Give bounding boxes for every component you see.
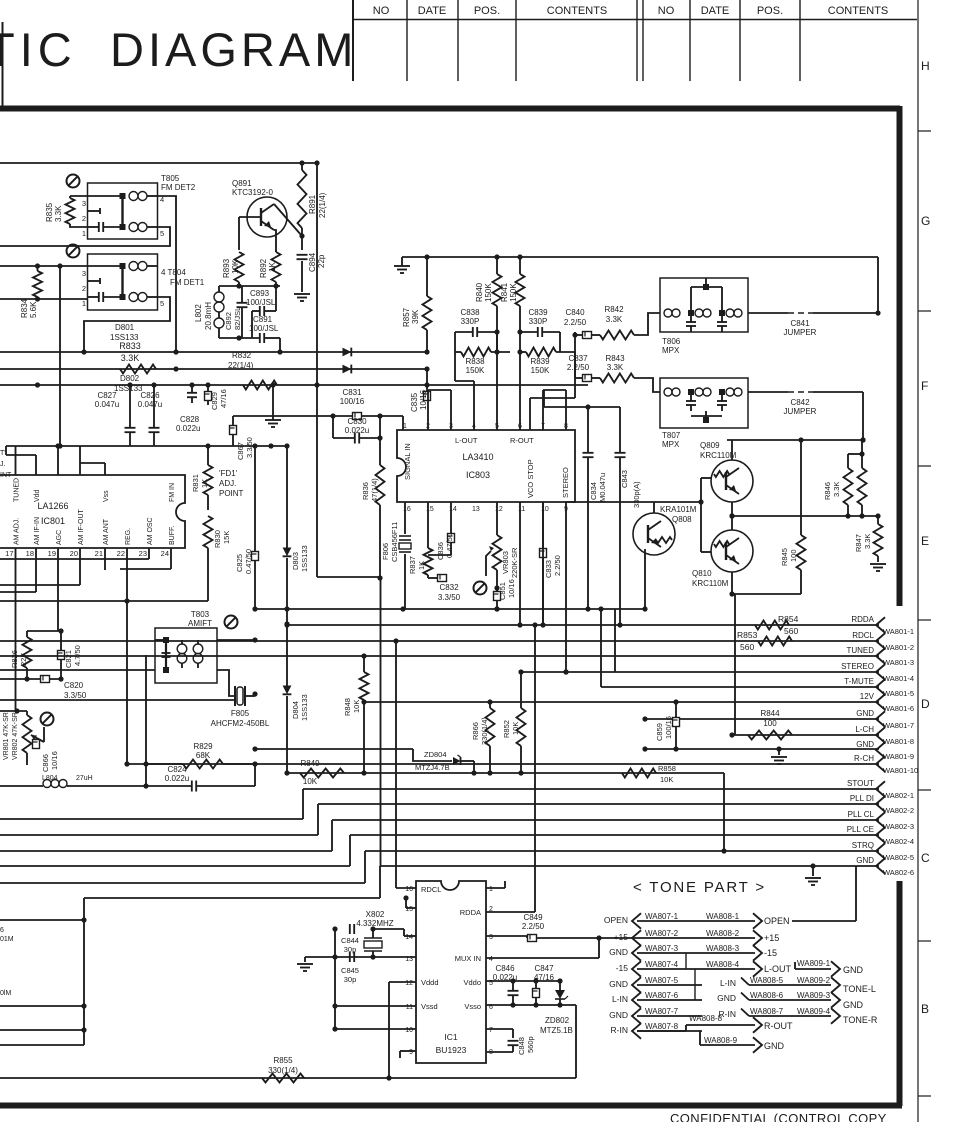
capacitor C847 — [533, 964, 555, 1005]
svg-text:C837: C837 — [568, 354, 588, 363]
svg-text:21: 21 — [95, 549, 103, 558]
transistor label cut 1 — [0, 927, 14, 943]
resistor R858 — [622, 764, 676, 784]
svg-text:3.3/50: 3.3/50 — [64, 691, 87, 700]
svg-text:G: G — [921, 214, 930, 228]
svg-text:E: E — [921, 534, 929, 548]
svg-text:100/JSL: 100/JSL — [249, 324, 279, 333]
zone reference line — [917, 0, 919, 1122]
svg-text:WA807-2: WA807-2 — [645, 929, 679, 938]
wire OPEN row riser — [792, 866, 856, 921]
capacitor C820 — [41, 676, 87, 701]
svg-text:WA801-10: WA801-10 — [883, 766, 918, 775]
connector WA802-6 GND — [856, 856, 914, 877]
svg-text:150K: 150K — [531, 366, 550, 375]
connector WA801-1 RDDA — [851, 615, 914, 636]
connector WA801-3 TUNED — [846, 646, 914, 667]
IC803 pin numbers — [403, 423, 568, 513]
connector WA808-7 R-IN — [719, 1007, 840, 1024]
svg-text:47/16: 47/16 — [534, 973, 555, 982]
wire Q810 emitter — [729, 572, 801, 735]
wire IC1 pin3 — [486, 936, 527, 938]
op-amp U IC803 LA3410 box — [397, 430, 575, 502]
svg-text:C891: C891 — [253, 315, 273, 324]
wire pin11 drop — [517, 502, 522, 628]
svg-text:R840: R840 — [475, 282, 484, 302]
capacitor C892 — [224, 286, 248, 338]
svg-text:47(1/4): 47(1/4) — [370, 478, 379, 502]
adjust mark T803 — [225, 616, 238, 629]
title block separator — [352, 0, 354, 81]
svg-text:220K-SR: 220K-SR — [510, 547, 519, 578]
svg-text:WA801-4: WA801-4 — [883, 674, 914, 683]
wire bus y702 12V — [361, 699, 879, 704]
capacitor C851 — [494, 579, 517, 611]
svg-text:C832: C832 — [439, 583, 459, 592]
svg-text:3.3K: 3.3K — [832, 482, 841, 497]
wire T804 pin3 — [0, 263, 88, 268]
resistor R843 — [600, 354, 660, 392]
transistor Q891 — [232, 179, 287, 237]
capacitor C836 — [428, 502, 455, 560]
wire IC1 pin9 — [400, 1051, 416, 1058]
svg-text:GND: GND — [717, 993, 736, 1003]
svg-text:WA809-2: WA809-2 — [797, 976, 831, 985]
svg-text:AMIFT: AMIFT — [188, 619, 212, 628]
frame thick top border — [0, 106, 900, 112]
resistor R855 — [262, 1056, 304, 1083]
revision table grid — [353, 0, 917, 81]
svg-text:10K: 10K — [660, 775, 673, 784]
transformer T805 box — [88, 174, 196, 239]
svg-text:C851: C851 — [498, 582, 507, 600]
svg-text:L-CH: L-CH — [855, 725, 874, 734]
diode D802 — [114, 365, 351, 393]
svg-text:C847: C847 — [534, 964, 554, 973]
connector WA807-4 -15 — [616, 960, 702, 977]
svg-text:R892: R892 — [259, 258, 268, 278]
svg-text:Vsso: Vsso — [464, 1002, 481, 1011]
svg-text:10/16: 10/16 — [50, 751, 59, 770]
svg-text:10/16: 10/16 — [507, 579, 516, 598]
zone ticks — [918, 131, 931, 1096]
svg-text:T806: T806 — [662, 337, 681, 346]
wire X802 left vert — [332, 926, 337, 1029]
svg-text:STRQ: STRQ — [852, 841, 874, 850]
capacitor C848 — [486, 1036, 535, 1055]
frame thick right border lower — [897, 881, 903, 1106]
capacitor C893 — [246, 286, 276, 338]
wire C842 to decoder — [860, 392, 865, 443]
resistor R847 — [854, 516, 883, 562]
transistor Q810 KRC110M — [692, 530, 753, 588]
svg-text:M0.047u: M0.047u — [598, 473, 607, 502]
connector WA807-2 +15 — [614, 929, 702, 946]
wire mpx supply rail — [402, 254, 878, 259]
svg-text:R839: R839 — [530, 357, 550, 366]
adjust mark C851 — [474, 582, 487, 595]
svg-text:22: 22 — [117, 549, 125, 558]
wire IC1 pin5 Vddo rail — [486, 978, 563, 983]
capacitor C849 — [522, 913, 637, 942]
IC803 top pin wires — [428, 332, 566, 430]
resistor R852 — [502, 672, 526, 776]
svg-text:JUMPER: JUMPER — [784, 407, 817, 416]
wire R849 row — [287, 770, 724, 775]
svg-text:R893: R893 — [222, 258, 231, 278]
svg-text:10/16: 10/16 — [419, 389, 428, 410]
svg-text:C849: C849 — [523, 913, 543, 922]
svg-text:R-CH: R-CH — [854, 754, 874, 763]
svg-text:560: 560 — [784, 626, 798, 636]
svg-text:CONTENTS: CONTENTS — [828, 5, 889, 17]
svg-text:RDCL: RDCL — [421, 885, 441, 894]
revision table headers — [373, 5, 889, 17]
svg-text:NO: NO — [658, 5, 675, 17]
filter F806 — [381, 522, 411, 609]
svg-text:GND: GND — [609, 1010, 628, 1020]
resistor R848 — [343, 656, 369, 776]
svg-text:F805: F805 — [231, 709, 250, 718]
svg-text:12: 12 — [405, 980, 413, 987]
title text SCHEMATIC DIAGRAM (clipped) — [0, 23, 357, 76]
capacitor C843 — [544, 390, 641, 628]
svg-text:+15: +15 — [614, 932, 629, 942]
capacitor C844 — [341, 924, 359, 954]
svg-text:KTC3192-0: KTC3192-0 — [232, 188, 273, 197]
svg-text:100/16: 100/16 — [340, 397, 365, 406]
op-amp U IC801 LA1266 box — [0, 475, 185, 548]
svg-text:R834: R834 — [20, 298, 29, 318]
resistor R829 — [143, 742, 257, 769]
connector WA808-5 L-IN — [720, 976, 840, 993]
svg-text:0.047u: 0.047u — [138, 400, 162, 409]
svg-text:D: D — [921, 697, 930, 711]
wire tone jog 3-4 — [685, 953, 687, 969]
inductor L802 — [194, 286, 224, 338]
svg-text:330P: 330P — [529, 317, 548, 326]
transformer T803 box — [155, 610, 217, 683]
adjust mark T805 — [67, 175, 80, 188]
svg-text:WA801-1: WA801-1 — [883, 627, 914, 636]
resistor R839 — [517, 332, 575, 430]
frame thick bottom border — [0, 1103, 902, 1109]
svg-text:2.2/50: 2.2/50 — [553, 555, 562, 576]
connector WA801-10 R-CH — [854, 754, 918, 775]
svg-text:CONFIDENTIAL (CONTROL COPY: CONFIDENTIAL (CONTROL COPY — [670, 1111, 887, 1122]
wire bottom bus A — [0, 1003, 87, 1008]
svg-text:2.2/50: 2.2/50 — [522, 922, 545, 931]
svg-text:C867: C867 — [236, 442, 245, 460]
wire decoder top rail — [727, 437, 866, 442]
resistor R866 — [471, 702, 495, 776]
wire bus y641 RDCL — [0, 638, 879, 643]
svg-text:WA808-1: WA808-1 — [706, 912, 740, 921]
svg-text:VR801 47K-SR: VR801 47K-SR — [3, 712, 10, 760]
svg-text:3.3K: 3.3K — [606, 315, 623, 324]
svg-text:CSB456F11: CSB456F11 — [390, 522, 399, 562]
svg-text:L-OUT: L-OUT — [764, 964, 792, 974]
svg-text:0.47/50: 0.47/50 — [445, 533, 454, 558]
svg-text:R831: R831 — [191, 474, 200, 492]
node T804 pin3 drop — [59, 266, 61, 446]
connector WA801-6 12V — [860, 692, 914, 713]
svg-text:OPEN: OPEN — [764, 916, 790, 926]
svg-text:TONE-R: TONE-R — [843, 1015, 878, 1025]
wire IC1 pin15 — [403, 895, 416, 908]
svg-text:R843: R843 — [605, 354, 625, 363]
svg-text:MPX: MPX — [662, 440, 680, 449]
svg-text:WA801-2: WA801-2 — [883, 643, 914, 652]
capacitor C845 — [341, 952, 359, 984]
wire Q808 emitter — [644, 549, 646, 609]
capacitor C831 — [233, 388, 403, 438]
connector WA807-6 L-IN — [612, 991, 702, 1008]
wire stair bus 4 — [0, 835, 879, 866]
connector WA801-9 GND — [856, 740, 914, 761]
svg-text:WA801-6: WA801-6 — [883, 704, 914, 713]
svg-text:17: 17 — [5, 549, 13, 558]
svg-text:AGC: AGC — [56, 530, 63, 545]
connector WA808-9 GND — [637, 1025, 785, 1053]
wire bus y687 TMUTE — [598, 606, 879, 687]
svg-text:+15: +15 — [764, 933, 779, 943]
svg-text:1: 1 — [82, 229, 86, 238]
svg-text:WA808-2: WA808-2 — [706, 929, 740, 938]
svg-text:Vssd: Vssd — [421, 1002, 438, 1011]
resistor R834 — [20, 266, 42, 318]
resistor R857 — [402, 257, 432, 352]
tone part heading — [633, 879, 766, 896]
wire tone jog 4-5 — [694, 969, 696, 1000]
svg-text:D803: D803 — [291, 552, 300, 570]
svg-text:WA802-6: WA802-6 — [883, 868, 914, 877]
svg-text:AM IF-IN: AM IF-IN — [34, 517, 41, 545]
svg-text:C845: C845 — [341, 966, 359, 975]
svg-text:15K: 15K — [222, 531, 231, 544]
connector WA808-6 GND — [717, 991, 840, 1008]
wire detector out D802 — [0, 366, 430, 371]
svg-text:3.3/50: 3.3/50 — [438, 593, 461, 602]
wire IC1 pin11 — [332, 1003, 416, 1008]
connector WA801-2 RDCL — [852, 631, 914, 652]
wire R858 drop — [721, 773, 726, 854]
connector WA802-1 STOUT — [847, 779, 914, 800]
connector WA807-3 GND — [609, 944, 702, 961]
svg-text:FM IN: FM IN — [169, 483, 176, 502]
connector WA802-5 STRQ — [852, 841, 914, 862]
transformer T805 internals — [82, 192, 164, 239]
svg-text:-15: -15 — [616, 963, 629, 973]
svg-text:ZD802: ZD802 — [545, 1016, 570, 1025]
wire bus y719 GND1 — [642, 716, 879, 721]
svg-text:1K: 1K — [200, 479, 209, 488]
svg-text:150K: 150K — [484, 283, 493, 302]
svg-text:Vddd: Vddd — [421, 978, 439, 987]
svg-text:0.047u: 0.047u — [95, 400, 119, 409]
jumper C842 — [748, 392, 863, 416]
resistor R842 — [600, 305, 660, 340]
svg-text:L802: L802 — [194, 304, 203, 322]
svg-text:R830: R830 — [213, 530, 222, 548]
svg-text:R833: R833 — [119, 341, 141, 351]
svg-text:14: 14 — [405, 934, 413, 941]
svg-text:C827: C827 — [97, 391, 117, 400]
svg-text:C820: C820 — [64, 681, 84, 690]
svg-text:10K: 10K — [511, 722, 520, 735]
connector WA808-4 L-OUT — [702, 960, 792, 977]
wire C820 row — [0, 676, 64, 681]
svg-text:VR802 47K-SR: VR802 47K-SR — [12, 712, 19, 760]
svg-text:Q891: Q891 — [232, 179, 252, 188]
svg-text:4 T804: 4 T804 — [161, 268, 186, 277]
svg-text:WA802-2: WA802-2 — [883, 806, 914, 815]
svg-text:WA801-3: WA801-3 — [883, 658, 914, 667]
resistor R893 — [222, 252, 244, 286]
svg-text:R891: R891 — [308, 194, 317, 214]
resistor R849 — [300, 759, 344, 786]
wire bus y735 LCH — [729, 732, 879, 737]
pot VR801 VR802 — [0, 708, 44, 765]
svg-text:WA809-3: WA809-3 — [797, 991, 831, 1000]
svg-text:C831: C831 — [342, 388, 362, 397]
svg-text:0.022u: 0.022u — [345, 426, 369, 435]
svg-text:0lM: 0lM — [0, 990, 11, 997]
svg-text:C835: C835 — [410, 392, 419, 412]
svg-text:20.8mH: 20.8mH — [204, 302, 213, 330]
wire T804 pin1 — [0, 296, 88, 301]
resistor R833 — [119, 341, 156, 374]
svg-text:100/16: 100/16 — [664, 716, 673, 739]
svg-text:NO: NO — [373, 5, 390, 17]
svg-text:T': T' — [0, 450, 6, 457]
IC801 top pin wires — [6, 443, 105, 475]
svg-text:X802: X802 — [366, 910, 385, 919]
svg-text:WA802-3: WA802-3 — [883, 822, 914, 831]
connector WA807-5 GND — [609, 976, 702, 993]
svg-text:150K: 150K — [466, 366, 485, 375]
svg-text:R846: R846 — [823, 482, 832, 500]
svg-text:WA808-9: WA808-9 — [704, 1036, 738, 1045]
svg-text:82/JSL: 82/JSL — [233, 307, 242, 330]
svg-text:WA808-8: WA808-8 — [689, 1014, 723, 1023]
wire T805 pin5 out — [0, 227, 170, 246]
svg-text:Q808: Q808 — [672, 515, 692, 524]
svg-text:D801: D801 — [115, 323, 135, 332]
capacitor C824 — [69, 764, 255, 792]
svg-text:330(1/4): 330(1/4) — [480, 717, 489, 745]
wire IC1 pin16 RDCL — [396, 641, 416, 888]
svg-text:C833: C833 — [544, 560, 553, 578]
svg-text:R849: R849 — [300, 759, 320, 768]
svg-text:19: 19 — [48, 549, 56, 558]
svg-text:MPX: MPX — [662, 346, 680, 355]
diode D804 — [283, 606, 309, 775]
svg-text:C828: C828 — [180, 415, 200, 424]
svg-text:R847: R847 — [854, 534, 863, 552]
svg-text:ZD804: ZD804 — [424, 750, 447, 759]
wire bus y625 RDDA — [284, 622, 879, 627]
capacitor C839 — [517, 308, 560, 337]
jumper C841 — [748, 313, 878, 337]
inductor L804 — [0, 775, 93, 788]
svg-text:01M: 01M — [0, 936, 14, 943]
svg-text:100: 100 — [763, 719, 777, 728]
capacitor C891 — [219, 315, 283, 355]
svg-text:WA801-8: WA801-8 — [883, 737, 914, 746]
transformer T804 box — [88, 254, 205, 310]
transformer T804 internals — [82, 262, 164, 309]
svg-text:30p: 30p — [344, 975, 357, 984]
svg-text:22K: 22K — [19, 653, 28, 666]
transistor Q808 KRA101M — [633, 505, 697, 555]
connector WA802-3 PLL CL — [848, 810, 914, 831]
resistor R854 — [755, 614, 799, 636]
svg-text:R832: R832 — [232, 351, 252, 360]
connector WA807-8 R-IN — [611, 1022, 702, 1039]
ground near R857 — [394, 257, 410, 273]
wire stair bus 6 — [84, 866, 879, 898]
ground near R844 — [771, 749, 787, 764]
wire R855 row — [0, 1075, 576, 1080]
svg-text:PLL CL: PLL CL — [848, 810, 875, 819]
ground R847 — [870, 564, 886, 571]
svg-text:C826: C826 — [140, 391, 160, 400]
svg-text:T-MUTE: T-MUTE — [844, 677, 874, 686]
wire Q891 base — [239, 217, 261, 250]
svg-text:WA801-5: WA801-5 — [883, 689, 914, 698]
wire bottom bus B — [0, 1027, 87, 1032]
svg-text:WA808-3: WA808-3 — [706, 944, 740, 953]
svg-text:FM DET2: FM DET2 — [161, 183, 196, 192]
svg-text:560p: 560p — [526, 1036, 535, 1053]
svg-text:3: 3 — [489, 934, 493, 941]
svg-text:0.022u: 0.022u — [165, 774, 189, 783]
transformer T803 internals — [155, 637, 203, 673]
svg-text:WA807-8: WA807-8 — [645, 1022, 679, 1031]
svg-text:R857: R857 — [402, 307, 411, 327]
wire FM quad node — [219, 283, 280, 288]
wire bus y764 RCH — [127, 763, 879, 765]
svg-text:AM ANT: AM ANT — [103, 518, 110, 545]
svg-text:9: 9 — [409, 1049, 413, 1056]
svg-text:WA807-4: WA807-4 — [645, 960, 679, 969]
transformer T807 — [660, 378, 748, 449]
svg-text:3.3/50: 3.3/50 — [245, 437, 254, 458]
wire T805 pin4 out — [158, 196, 177, 265]
svg-text:WA808-5: WA808-5 — [750, 976, 784, 985]
svg-text:4.332MHZ: 4.332MHZ — [356, 919, 393, 928]
wire mpx rail drop — [875, 257, 880, 316]
svg-text:KRA101M: KRA101M — [660, 505, 697, 514]
svg-text:R866: R866 — [471, 722, 480, 740]
transistor Q809 KRC110M — [700, 441, 753, 502]
svg-text:1SS133: 1SS133 — [300, 545, 309, 572]
wire IC1 pin12 — [389, 982, 416, 1078]
wire bus y672 STEREO — [518, 609, 879, 675]
wire VR803 tap — [486, 546, 494, 576]
capacitor C840 — [564, 308, 600, 339]
wire IC1 pin7 — [486, 1029, 513, 1038]
svg-text:TUNED: TUNED — [846, 646, 874, 655]
svg-text:C866: C866 — [41, 754, 50, 772]
capacitor C866 — [33, 740, 60, 773]
svg-text:T805: T805 — [161, 174, 180, 183]
adjust mark T804 — [67, 245, 80, 258]
svg-text:F806: F806 — [381, 543, 390, 560]
svg-text:R829: R829 — [193, 742, 213, 751]
resistor R838 — [455, 332, 510, 381]
